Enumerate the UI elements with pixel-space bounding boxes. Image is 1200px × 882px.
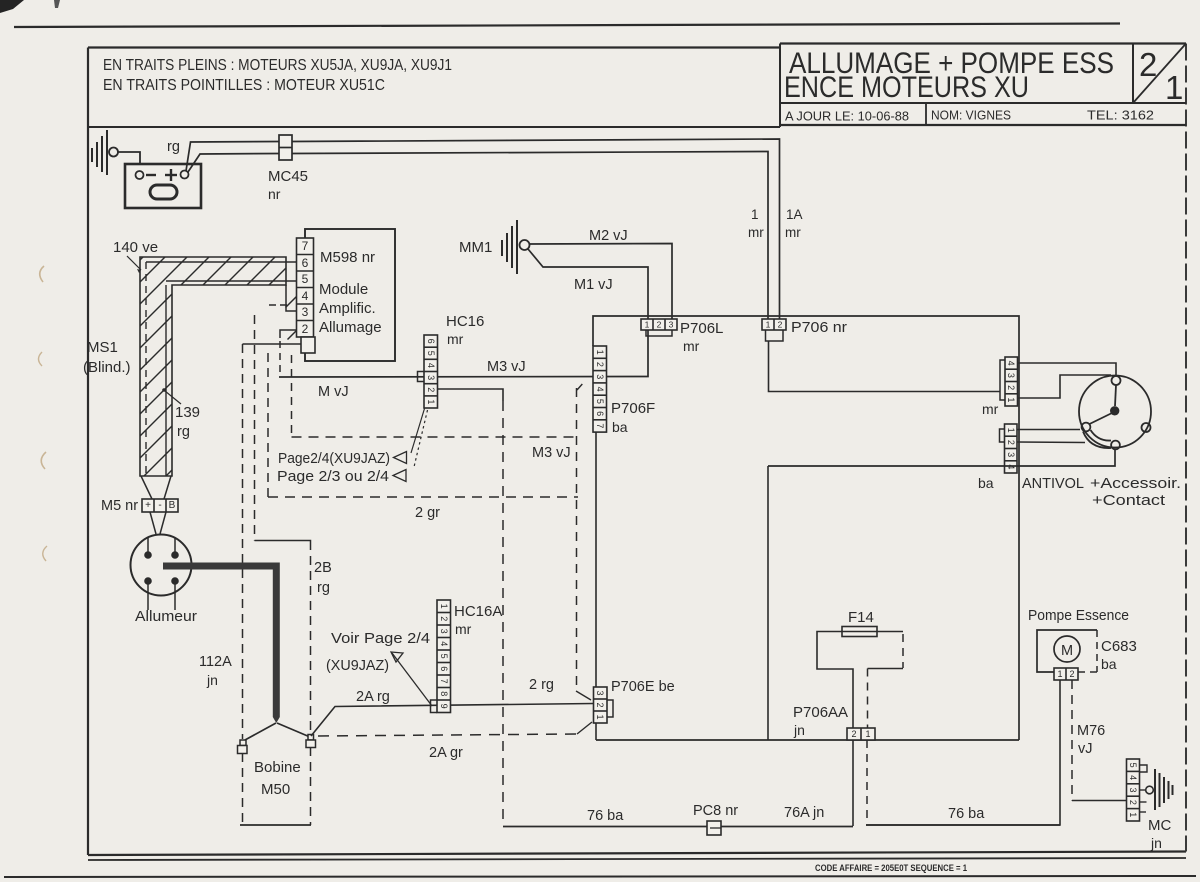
- svg-text:jn: jn: [793, 722, 805, 738]
- svg-text:Allumeur: Allumeur: [135, 608, 197, 625]
- module M598 pin 1 box: [301, 337, 315, 353]
- svg-text:jn: jn: [206, 672, 218, 688]
- wire 140 ve (inside shield, dashed variant): [145, 262, 147, 476]
- P706 bracket: [766, 330, 784, 341]
- svg-text:2: 2: [851, 729, 856, 739]
- svg-text:+Accessoir.: +Accessoir.: [1090, 475, 1181, 492]
- svg-text:2: 2: [1128, 800, 1138, 805]
- svg-text:M vJ: M vJ: [318, 384, 349, 400]
- svg-text:4: 4: [439, 641, 449, 646]
- drawing frame: [88, 46, 780, 48]
- svg-text:P706AA: P706AA: [793, 704, 848, 721]
- wire M76 vJ: [1071, 680, 1073, 801]
- svg-text:2: 2: [595, 362, 605, 367]
- svg-text:2: 2: [778, 320, 783, 330]
- svg-text:1: 1: [1006, 428, 1016, 433]
- funnel shield to M5: [141, 476, 152, 499]
- svg-text:2: 2: [439, 616, 449, 621]
- wire 76 ba / 76A jn bus: [503, 826, 853, 828]
- svg-text:PC8 nr: PC8 nr: [693, 803, 738, 819]
- ground (battery): [92, 130, 118, 175]
- connector P706L: [641, 319, 677, 330]
- wire P706 pin1 to antivol mr: [769, 341, 1001, 392]
- svg-text:1: 1: [645, 320, 650, 330]
- wire shield to pin3: [286, 285, 297, 311]
- battery: [125, 164, 201, 208]
- svg-text:Page 2/3 ou 2/4: Page 2/3 ou 2/4: [277, 469, 389, 485]
- connector M5: [142, 499, 178, 512]
- svg-text:M76: M76: [1077, 723, 1105, 739]
- svg-text:9: 9: [439, 704, 449, 709]
- svg-text:5: 5: [595, 399, 605, 404]
- svg-text:Pompe Essence: Pompe Essence: [1028, 607, 1129, 624]
- sheet number 2/1 box: [1132, 44, 1134, 104]
- svg-text:P706 nr: P706 nr: [791, 319, 847, 336]
- svg-text:Bobine: Bobine: [254, 759, 301, 776]
- connector P706: [762, 319, 786, 330]
- antivol lower connector bracket: [1000, 429, 1005, 442]
- svg-text:NOM: VIGNES: NOM: VIGNES: [931, 108, 1011, 123]
- svg-text:1: 1: [751, 207, 759, 222]
- wire 139 rg (inside shield): [165, 285, 167, 476]
- svg-text:mr: mr: [785, 225, 801, 240]
- svg-text:76A jn: 76A jn: [784, 805, 824, 821]
- svg-text:76 ba: 76 ba: [948, 806, 985, 822]
- svg-text:3: 3: [595, 374, 605, 379]
- connector HC16: [424, 335, 438, 408]
- dashed wire into P706F: [577, 381, 585, 390]
- dashed drop to 76 ba: [866, 740, 868, 824]
- svg-text:1: 1: [1006, 397, 1016, 402]
- wire pin1 to switch contact: [1017, 429, 1080, 431]
- svg-text:2: 2: [426, 387, 436, 392]
- splice PC8: [707, 821, 721, 835]
- svg-text:M3 vJ: M3 vJ: [487, 359, 526, 375]
- wire 1A mr: [186, 142, 279, 172]
- svg-text:ba: ba: [612, 419, 628, 435]
- svg-text:-: -: [158, 500, 161, 511]
- svg-text:vJ: vJ: [1078, 741, 1093, 757]
- svg-text:B: B: [169, 500, 176, 511]
- wire ba to pin4 and switch bottom: [768, 450, 1115, 466]
- connector pompe (1|2): [1054, 668, 1078, 680]
- svg-text:1: 1: [865, 729, 870, 739]
- svg-text:1: 1: [1057, 669, 1062, 679]
- wire coil V right: [277, 723, 310, 737]
- connector P706F: [593, 346, 607, 432]
- ground (MC): [1146, 786, 1154, 794]
- svg-text:2: 2: [302, 322, 309, 336]
- svg-text:(Blind.): (Blind.): [83, 359, 131, 376]
- wire pin1 to coil branch: [243, 343, 302, 345]
- svg-text:P706E be: P706E be: [611, 679, 675, 695]
- connector HC16A: [437, 600, 451, 713]
- svg-text:Amplific.: Amplific.: [319, 300, 376, 317]
- svg-text:F14: F14: [848, 609, 874, 626]
- svg-text:M5 nr: M5 nr: [101, 498, 138, 514]
- svg-text:1A: 1A: [786, 207, 803, 222]
- svg-text:C683: C683: [1101, 638, 1137, 655]
- svg-text:2: 2: [1006, 440, 1016, 445]
- connector MC45: [279, 135, 292, 160]
- svg-text:4: 4: [1006, 464, 1016, 469]
- svg-text:M50: M50: [261, 781, 290, 798]
- svg-text:HC16: HC16: [446, 313, 484, 330]
- svg-text:(XU9JAZ): (XU9JAZ): [326, 657, 389, 674]
- svg-text:jn: jn: [1150, 835, 1162, 851]
- svg-text:mr: mr: [683, 338, 700, 354]
- svg-text:ANTIVOL: ANTIVOL: [1022, 475, 1084, 492]
- svg-text:rg: rg: [177, 424, 190, 440]
- svg-text:112A: 112A: [199, 654, 232, 670]
- svg-text:6: 6: [439, 666, 449, 671]
- scan top edge line: [14, 24, 1120, 28]
- svg-text:2A gr: 2A gr: [429, 745, 463, 761]
- svg-text:Voir Page 2/4: Voir Page 2/4: [331, 630, 430, 647]
- svg-text:3: 3: [302, 305, 309, 319]
- connector antivol ba: [1005, 424, 1018, 473]
- svg-text:6: 6: [302, 256, 309, 270]
- riser to antivol ba wire: [767, 466, 769, 740]
- svg-text:3: 3: [1128, 787, 1138, 792]
- P706E bracket: [607, 700, 613, 717]
- coil terminal right: [306, 735, 316, 748]
- svg-text:nr: nr: [268, 186, 281, 202]
- wire 2A rg: [311, 704, 594, 737]
- code strip: [88, 858, 1186, 860]
- svg-text:ba: ba: [1101, 656, 1117, 672]
- wire 2A gr (dashed): [318, 734, 577, 736]
- svg-text:3: 3: [1006, 373, 1016, 378]
- wire 2B rg (thick): [163, 563, 280, 724]
- wire P706F down to feed: [595, 432, 597, 740]
- svg-text:2: 2: [1006, 385, 1016, 390]
- wire shield to pin6: [146, 261, 297, 263]
- wire F14 left branch: [817, 632, 853, 729]
- wire 76A jn drop: [852, 740, 854, 826]
- svg-text:1: 1: [766, 320, 771, 330]
- svg-text:rg: rg: [317, 580, 330, 596]
- svg-text:6: 6: [595, 411, 605, 416]
- dashed wire to coil left terminal: [242, 344, 244, 739]
- wire pin2 step to switch top: [1018, 375, 1112, 398]
- wire pompe pin1 to 76 ba: [866, 680, 1060, 825]
- svg-text:MS1: MS1: [87, 339, 118, 356]
- svg-text:MC: MC: [1148, 817, 1171, 834]
- funnel M5 to allumeur: [150, 512, 156, 534]
- wire pin2 contact bar: [1017, 441, 1085, 444]
- bus wire mr: [593, 316, 1019, 740]
- svg-text:Page2/4(XU9JAZ): Page2/4(XU9JAZ): [278, 451, 390, 467]
- wire coil V left: [245, 723, 276, 740]
- svg-text:4: 4: [1128, 775, 1138, 780]
- bobine dashed enclosure: [242, 753, 244, 825]
- svg-text:2 gr: 2 gr: [415, 505, 440, 521]
- connector P706AA: [847, 728, 875, 740]
- title block: [780, 42, 1186, 44]
- ignition switch ANTIVOL: [1079, 376, 1151, 450]
- svg-text:MM1: MM1: [459, 239, 492, 256]
- svg-text:76 ba: 76 ba: [587, 808, 624, 824]
- svg-text:P706L: P706L: [680, 320, 723, 337]
- svg-text:1: 1: [426, 399, 436, 404]
- svg-text:5: 5: [439, 654, 449, 659]
- svg-text:Allumage: Allumage: [319, 319, 382, 336]
- svg-text:P706F: P706F: [611, 400, 655, 417]
- feed wire (P706F to antivol riser): [596, 739, 1019, 741]
- wire M1 vJ: [528, 249, 648, 319]
- svg-text:mr: mr: [982, 401, 999, 417]
- svg-text:7: 7: [302, 239, 309, 253]
- svg-text:M: M: [1061, 643, 1073, 659]
- module M598 pins 7-2: [297, 238, 314, 337]
- P706L bracket: [646, 330, 672, 336]
- svg-text:2: 2: [657, 320, 662, 330]
- wire ground to battery: [118, 152, 140, 164]
- legend box: [88, 126, 780, 128]
- svg-text:TEL: 3162: TEL: 3162: [1087, 108, 1154, 123]
- wire pin4 to switch top: [1018, 363, 1117, 376]
- svg-text:M1 vJ: M1 vJ: [574, 277, 613, 293]
- svg-text:M3 vJ: M3 vJ: [532, 445, 571, 461]
- svg-text:Module: Module: [319, 281, 368, 298]
- pin 2 hook + variant arrow: [280, 330, 297, 338]
- svg-text:1: 1: [1128, 812, 1138, 817]
- binder hole marks: [40, 266, 44, 282]
- MC pin stubs: [1140, 765, 1148, 772]
- svg-text:4: 4: [595, 387, 605, 392]
- dashed wire pin2 to M3: [279, 341, 281, 377]
- page reference leaders: [411, 409, 425, 454]
- svg-text:5: 5: [426, 351, 436, 356]
- svg-text:8: 8: [439, 691, 449, 696]
- svg-text:139: 139: [175, 404, 200, 421]
- svg-text:3: 3: [669, 320, 674, 330]
- wire F14 right branch (dashed variant): [877, 631, 903, 633]
- svg-text:6: 6: [426, 339, 436, 344]
- dashed wire M vJ box: [291, 355, 293, 437]
- svg-text:M598 nr: M598 nr: [320, 249, 375, 266]
- HC16 bracket: [418, 372, 425, 382]
- svg-text:4: 4: [1006, 361, 1016, 366]
- svg-text:rg: rg: [167, 139, 180, 155]
- svg-text:2: 2: [595, 702, 605, 707]
- svg-text:+: +: [145, 500, 151, 511]
- svg-text:EN TRAITS POINTILLES : MOTEUR: EN TRAITS POINTILLES : MOTEUR XU51C: [103, 77, 385, 94]
- wire M2 vJ: [529, 244, 672, 320]
- svg-text:2B: 2B: [314, 560, 332, 576]
- wire 1 mr: [188, 154, 279, 173]
- connector MC jn: [1127, 759, 1140, 821]
- svg-text:3: 3: [426, 375, 436, 380]
- svg-text:mr: mr: [748, 225, 764, 240]
- svg-text:1: 1: [1165, 69, 1183, 106]
- scan corner blotch: [0, 0, 24, 13]
- svg-text:2A rg: 2A rg: [356, 689, 390, 705]
- svg-text:3: 3: [595, 690, 605, 695]
- svg-text:4: 4: [426, 363, 436, 368]
- svg-text:2: 2: [1069, 669, 1074, 679]
- pin 4 variant arrow: [269, 304, 288, 306]
- svg-text:mr: mr: [447, 331, 464, 347]
- svg-text:MC45: MC45: [268, 168, 308, 185]
- svg-text:1: 1: [439, 604, 449, 609]
- connector P706E: [594, 687, 608, 723]
- allumeur (distributor): [131, 535, 192, 611]
- svg-text:M2 vJ: M2 vJ: [589, 228, 628, 244]
- svg-text:2 rg: 2 rg: [529, 677, 554, 693]
- svg-text:5: 5: [1128, 763, 1138, 768]
- voir page leader: [392, 653, 432, 706]
- wire shield to pin5: [166, 280, 297, 282]
- svg-text:HC16A: HC16A: [454, 603, 502, 620]
- svg-text:1: 1: [595, 714, 605, 719]
- svg-text:+Contact: +Contact: [1092, 492, 1166, 509]
- coil terminal left: [238, 740, 248, 754]
- svg-text:1: 1: [595, 350, 605, 355]
- wire HC16 to coil feed (down to bus): [438, 389, 504, 401]
- connector antivol mr: [1005, 357, 1018, 406]
- svg-text:2: 2: [1139, 46, 1157, 83]
- svg-text:7: 7: [439, 679, 449, 684]
- svg-text:ENCE MOTEURS XU: ENCE MOTEURS XU: [784, 71, 1029, 104]
- svg-text:EN TRAITS PLEINS : MOTEURS XU5: EN TRAITS PLEINS : MOTEURS XU5JA, XU9JA,…: [103, 57, 452, 74]
- wire 76 ba right: [866, 824, 1060, 826]
- dashed wire to coil right terminal: [254, 315, 256, 541]
- svg-text:mr: mr: [455, 621, 472, 637]
- wire M3 vJ: [279, 330, 648, 377]
- antivol upper connector bracket: [1000, 360, 1005, 400]
- svg-text:3: 3: [1006, 452, 1016, 457]
- HC16A bracket: [431, 700, 438, 713]
- svg-text:A JOUR LE: 10-06-88: A JOUR LE: 10-06-88: [785, 109, 909, 124]
- svg-text:140 ve: 140 ve: [113, 239, 158, 256]
- svg-text:7: 7: [595, 423, 605, 428]
- dashed wire 2 gr: [267, 353, 269, 497]
- svg-text:4: 4: [302, 289, 309, 303]
- svg-text:CODE AFFAIRE = 205E0T SEQUENCE: CODE AFFAIRE = 205E0T SEQUENCE = 1: [815, 863, 968, 874]
- svg-text:3: 3: [439, 629, 449, 634]
- svg-text:5: 5: [302, 272, 309, 286]
- module M598 box: [305, 229, 395, 361]
- svg-text:ba: ba: [978, 475, 994, 491]
